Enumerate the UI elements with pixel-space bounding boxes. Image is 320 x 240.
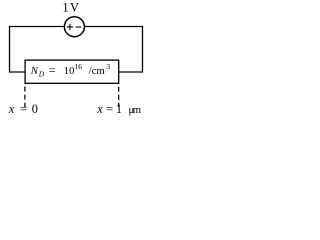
- wire: right vertical segment: [142, 26, 144, 72]
- semiconductor region box: [25, 60, 119, 83]
- wire: top-left horizontal segment: [10, 26, 65, 28]
- wire: left vertical segment: [9, 26, 11, 72]
- voltage source V1 plus terminal: [67, 24, 73, 30]
- svg-text:x=0: x=0: [8, 102, 38, 116]
- wire: bottom-right horizontal segment to box: [119, 71, 144, 73]
- voltage source V1 minus terminal: [76, 26, 82, 28]
- wire: top-right horizontal segment: [84, 26, 142, 28]
- svg-text:1V: 1V: [62, 1, 79, 15]
- wire: bottom-left horizontal segment to box: [9, 71, 25, 73]
- dashed line: right edge marker at x=1um: [118, 87, 120, 107]
- dashed line: left edge marker at x=0: [24, 87, 26, 108]
- voltage source V1 (1 V) circle: [64, 17, 84, 37]
- svg-text:x=1μm: x=1μm: [96, 102, 141, 116]
